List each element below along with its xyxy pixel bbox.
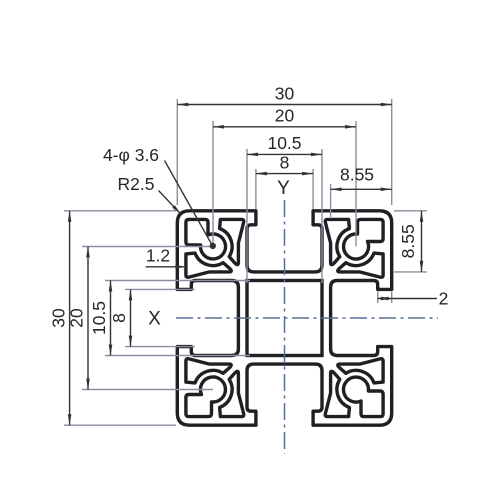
svg-text:8: 8 xyxy=(109,313,129,323)
node label-Y xyxy=(49,84,449,426)
svg-text:20: 20 xyxy=(67,308,87,328)
svg-text:30: 30 xyxy=(275,84,295,104)
profile outline: top-right quarter xyxy=(285,211,392,318)
svg-text:4-φ 3.6: 4-φ 3.6 xyxy=(103,145,159,165)
svg-text:10.5: 10.5 xyxy=(89,301,109,335)
svg-text:30: 30 xyxy=(49,308,69,328)
svg-text:8.55: 8.55 xyxy=(340,165,374,185)
profile outline: bottom-right quarter xyxy=(285,318,392,425)
profile outline: bottom-left quarter xyxy=(177,318,284,425)
svg-text:10.5: 10.5 xyxy=(267,133,301,153)
svg-text:X: X xyxy=(148,309,161,330)
svg-text:8.55: 8.55 xyxy=(398,224,418,258)
node D xyxy=(247,281,322,356)
svg-text:2: 2 xyxy=(439,289,449,309)
wire X centreline xyxy=(176,317,438,319)
svg-text:8: 8 xyxy=(280,153,290,173)
wire Y centreline xyxy=(284,200,286,454)
svg-text:R2.5: R2.5 xyxy=(118,174,155,194)
svg-text:Y: Y xyxy=(277,178,290,199)
svg-text:1.2: 1.2 xyxy=(146,246,170,266)
profile outline: top-left quarter xyxy=(177,211,284,318)
svg-text:20: 20 xyxy=(275,106,295,126)
